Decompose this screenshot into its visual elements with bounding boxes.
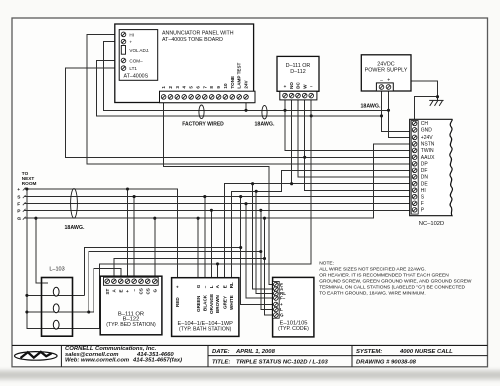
node: + bus / B-111 + [126,187,129,190]
svg-text:+: + [125,290,130,293]
node: code + riser / lamp1 line [239,246,242,249]
svg-text:APRIL 1, 2008: APRIL 1, 2008 [235,349,276,355]
svg-text:AT–4000S: AT–4000S [124,74,149,80]
wire: code station A riser from DE [253,184,273,289]
annunciator terminal strip 1-24V [160,62,256,102]
wire: annunciator LT1 to NC-102D AAUX [66,68,414,157]
tone board AT-4000S [119,30,158,81]
svg-text:GREY: GREY [222,296,227,309]
svg-text:RL: RL [229,282,234,288]
wire: code station G riser [265,218,273,315]
svg-text:NO: NO [289,82,294,89]
svg-text:+: + [17,188,20,193]
svg-text:NC–102D: NC–102D [419,221,444,227]
svg-text:2: 2 [168,86,173,89]
svg-text:DP: DP [421,162,429,168]
node: DF jog line / code RL [255,190,258,193]
svg-text:CH: CH [421,121,429,127]
svg-text:4000 NURSE CALL: 4000 NURSE CALL [399,349,453,355]
node: S bus / bath - [203,195,206,198]
wire: annunciator HI to NC-102D DP [87,34,414,163]
wire: NC-102D DF to bath station WHITE RL [231,170,413,277]
svg-text:L–103: L–103 [49,266,64,272]
svg-text:POWER SUPPLY: POWER SUPPLY [365,68,408,74]
wire: bath station BROWN A riser [217,264,219,278]
bus break ticks [23,188,26,220]
svg-text:ORANGE: ORANGE [209,294,214,314]
svg-text:7: 7 [202,86,207,89]
node: G bus / B-111 G [153,217,156,220]
svg-text:6: 6 [196,86,201,89]
svg-text:9: 9 [216,86,221,89]
svg-text:TRIPLE STATUS NC-102D / L-: TRIPLE STATUS NC-102D / L-103 [236,359,328,365]
svg-text:ANNUNCIATOR PANEL WITH: ANNUNCIATOR PANEL WITH [162,31,234,37]
svg-text:W: W [302,84,307,89]
wire: D-111 terminal 1 to NC-102D TWIN [285,96,414,151]
power supply 24VDC [361,55,411,91]
wire: bath station ORANGE L riser from P bus [210,210,212,277]
node: G bus / L-103 feed [34,217,37,220]
wire: B-111 + riser [127,189,129,277]
wire: D-111 terminal 5 to L-103 lamp 3 [99,96,311,329]
wire: power supply - down to NC-102D GND [382,91,414,132]
bus labels + S F P G [17,188,21,222]
node: +24 rail / PSU + [387,109,390,112]
svg-text:G: G [17,216,21,222]
title block [12,345,488,366]
wire: code station RL riser [256,191,272,293]
node: lamp row 1 / feed [25,294,28,297]
node: F bus / code F- [244,202,247,205]
wire: G bus up to NC-102D NSTN [24,144,414,218]
annunciator panel box [115,24,254,103]
svg-text:TITLE:: TITLE: [212,359,230,365]
bed station B-111 [100,276,162,335]
node: earth ground junction [436,95,439,98]
wire: B-111 - riser [133,197,135,278]
node: +24 rail / annunciator 24V [244,109,247,112]
svg-text:–: – [203,285,208,288]
nurse console NC-102D [410,119,453,227]
svg-text:CS: CS [139,288,144,294]
node: DE line / D-111 t2 [290,182,293,185]
svg-text:DC: DC [296,82,301,89]
wire: annunciator 24V drop to +24V rail [245,97,247,110]
svg-text:FACTORY WIRED: FACTORY WIRED [182,122,224,128]
wire: bath station BLACK - riser [204,197,206,278]
node: GND rail / PSU - [380,114,383,117]
svg-text:8: 8 [209,86,214,89]
svg-text:NSTN: NSTN [421,142,435,148]
cable marker ellipse factory wired [199,105,204,119]
svg-text:G: G [280,313,284,318]
cable marker ellipse 18AWG mid [262,105,267,119]
svg-text:+: + [129,40,132,45]
wire: D-111 terminal 3 to NC-102D DN [298,96,414,177]
wire: G bus feed into L-103 [36,218,48,283]
svg-text:SYSTEM:: SYSTEM: [356,349,382,355]
node: GND rail / D-111 - [310,114,313,117]
svg-text:GROUND SCREW, GREEN GROUND: GROUND SCREW, GREEN GROUND WIRE, AND GRO… [319,279,472,285]
svg-text:HI: HI [129,32,134,37]
svg-text:LAMP TEST: LAMP TEST [237,62,242,88]
wire: D-111 terminal 2 to DE line [291,96,293,184]
wire: bath station GREEN G riser [197,218,199,278]
diode board D-111 [277,56,319,100]
node: +24 rail / D-111 + [283,109,286,112]
wire: lamp 2 row riser [89,252,261,313]
node: DE line / code A [251,182,254,185]
wire: B-111 A riser to code G riser [114,259,265,278]
svg-text:24V: 24V [244,79,249,88]
svg-text:TONE: TONE [230,76,235,89]
title block text [65,346,453,365]
svg-text:DE: DE [421,182,429,188]
svg-text:TO EARTH GROUND, 18AWG. WI: TO EARTH GROUND, 18AWG. WIRE MINIMUM. [319,291,425,297]
wire: code station L riser [261,210,273,309]
svg-text:18AWG.: 18AWG. [254,122,275,128]
wire: B-111 G riser [154,218,156,277]
node: P bus / bath L riser [210,209,213,212]
node: code G riser / A line [263,257,266,260]
svg-text:+: + [175,285,180,288]
wire: code station + riser [241,197,273,305]
svg-text:L: L [280,307,283,312]
wire: B-111 E riser link to lamp row 2 [94,269,121,313]
svg-text:1: 1 [161,86,166,89]
svg-text:F–: F– [280,296,286,301]
svg-text:10: 10 [223,83,228,89]
node: G bus / bath G [197,217,200,220]
wire: L-103 lamp row 1 [27,294,85,296]
svg-text:+: + [284,84,287,89]
svg-text:LT1: LT1 [129,66,137,71]
svg-text:5: 5 [189,86,194,89]
wire: lamp 1 row riser to code + riser [85,248,241,296]
svg-text:COM–: COM– [129,59,143,64]
svg-text:(TYP. BED STATION): (TYP. BED STATION) [106,322,156,328]
svg-text:AT–4000S TONE BOARD: AT–4000S TONE BOARD [162,37,223,43]
node: + bus / L-103 feed [25,187,28,190]
svg-text:G: G [152,289,157,293]
svg-text:RED: RED [175,297,180,307]
code station E-101/105 [273,277,314,337]
svg-text:D–112: D–112 [290,69,305,75]
node: S bus / B-111 - [133,195,136,198]
svg-text:DATE:: DATE: [212,349,230,355]
node: S bus / code + [239,195,242,198]
svg-text:TWIN: TWIN [421,148,434,154]
svg-text:18AWG.: 18AWG. [360,103,381,109]
svg-text:CS: CS [145,288,150,294]
wire: code station F- riser [246,204,273,298]
svg-text:G: G [196,284,201,288]
node: lamp row 2 / lamp 2 riser [87,310,90,313]
svg-text:F: F [17,202,20,208]
logo [15,352,58,361]
wire: NC-102D DE to bath station GREY E [225,184,414,278]
svg-text:DN: DN [421,175,429,181]
svg-text:ROOM: ROOM [22,181,37,186]
svg-text:GND: GND [421,128,433,134]
cable marker ellipse 18AWG on bus [71,189,78,219]
svg-text:NOTE:: NOTE: [319,260,334,266]
wire: P bus to NC-102D P [24,209,414,211]
svg-text:GREEN: GREEN [196,295,201,312]
node: AAUX line / D-111 t4 [303,156,306,159]
svg-text:E: E [118,289,123,292]
svg-text:E: E [222,285,227,288]
wire: annunciator + to +24V rail [104,42,389,111]
scanner shadow band [0,371,500,380]
svg-text:Web: www.cornell.com: Web: www.cornell.com [65,358,129,364]
node: code L riser / lamp2 line [259,250,262,253]
wire: F bus to NC-102D F [24,203,414,205]
svg-text:L: L [209,285,214,288]
svg-text:414-351-4657(fax): 414-351-4657(fax) [132,358,182,364]
wire: NC-102D CH up to earth ground junction [414,97,437,124]
wire: L-103 lamp row 2 [27,311,94,313]
svg-text:BROWN: BROWN [215,294,220,313]
svg-text:TERMINAL ON CALL STATIONS: TERMINAL ON CALL STATIONS (LABELED "G") … [319,285,465,291]
svg-text:ALL WIRE SIZES NOT SPECIFI: ALL WIRE SIZES NOT SPECIFIED ARE 22AWG. [319,267,426,273]
svg-text:DF: DF [421,168,428,174]
svg-text:4: 4 [182,86,187,89]
wire: D-111 terminal 4 to NC-102D HI [305,96,414,191]
svg-text:WHITE: WHITE [229,295,234,310]
node: G bus / code G [263,217,266,220]
svg-text:VOL ADJ.: VOL ADJ. [129,48,149,53]
svg-text:BLACK: BLACK [203,294,208,311]
wire: power supply + down to NC-102D +24V [389,91,414,138]
svg-text:OR HEAVIER. IT IS RECOMME: OR HEAVIER. IT IS RECOMMENDED THAT EACH … [319,273,449,279]
svg-text:24VDC: 24VDC [377,61,394,67]
wire: annunciator terminal 1 to code station E [164,97,273,285]
svg-text:(TYP. CODE): (TYP. CODE) [278,326,309,332]
svg-text:(TYP. BATH STATION): (TYP. BATH STATION) [179,326,232,332]
svg-text:DRAWING # 90038-08: DRAWING # 90038-08 [356,359,417,365]
wire: power supply output to earth ground junction [411,81,438,97]
node: P bus / code L [259,209,262,212]
svg-text:AAUX: AAUX [421,155,435,161]
ground [429,97,443,106]
svg-text:ST: ST [105,288,110,294]
node: lamp row 2 / feed [25,310,28,313]
svg-text:HI: HI [421,188,426,194]
note text [319,260,472,296]
wire: L-103 lamp row 3 and + feed vertical [27,189,99,329]
svg-text:3: 3 [175,86,180,89]
svg-text:18AWG.: 18AWG. [64,225,85,231]
wire: + bus to bath station RED + [24,189,177,278]
svg-text:+24V: +24V [421,135,433,141]
wire: S bus to NC-102D S [24,196,414,198]
bath station E-104 [172,278,239,337]
wire: annunciator COM- to GND rail [96,61,381,116]
TO NEXT ROOM label [22,171,37,186]
dome light L-103 [42,266,73,336]
node: L4 / bath A riser [216,262,219,265]
svg-text:F: F [421,201,424,207]
